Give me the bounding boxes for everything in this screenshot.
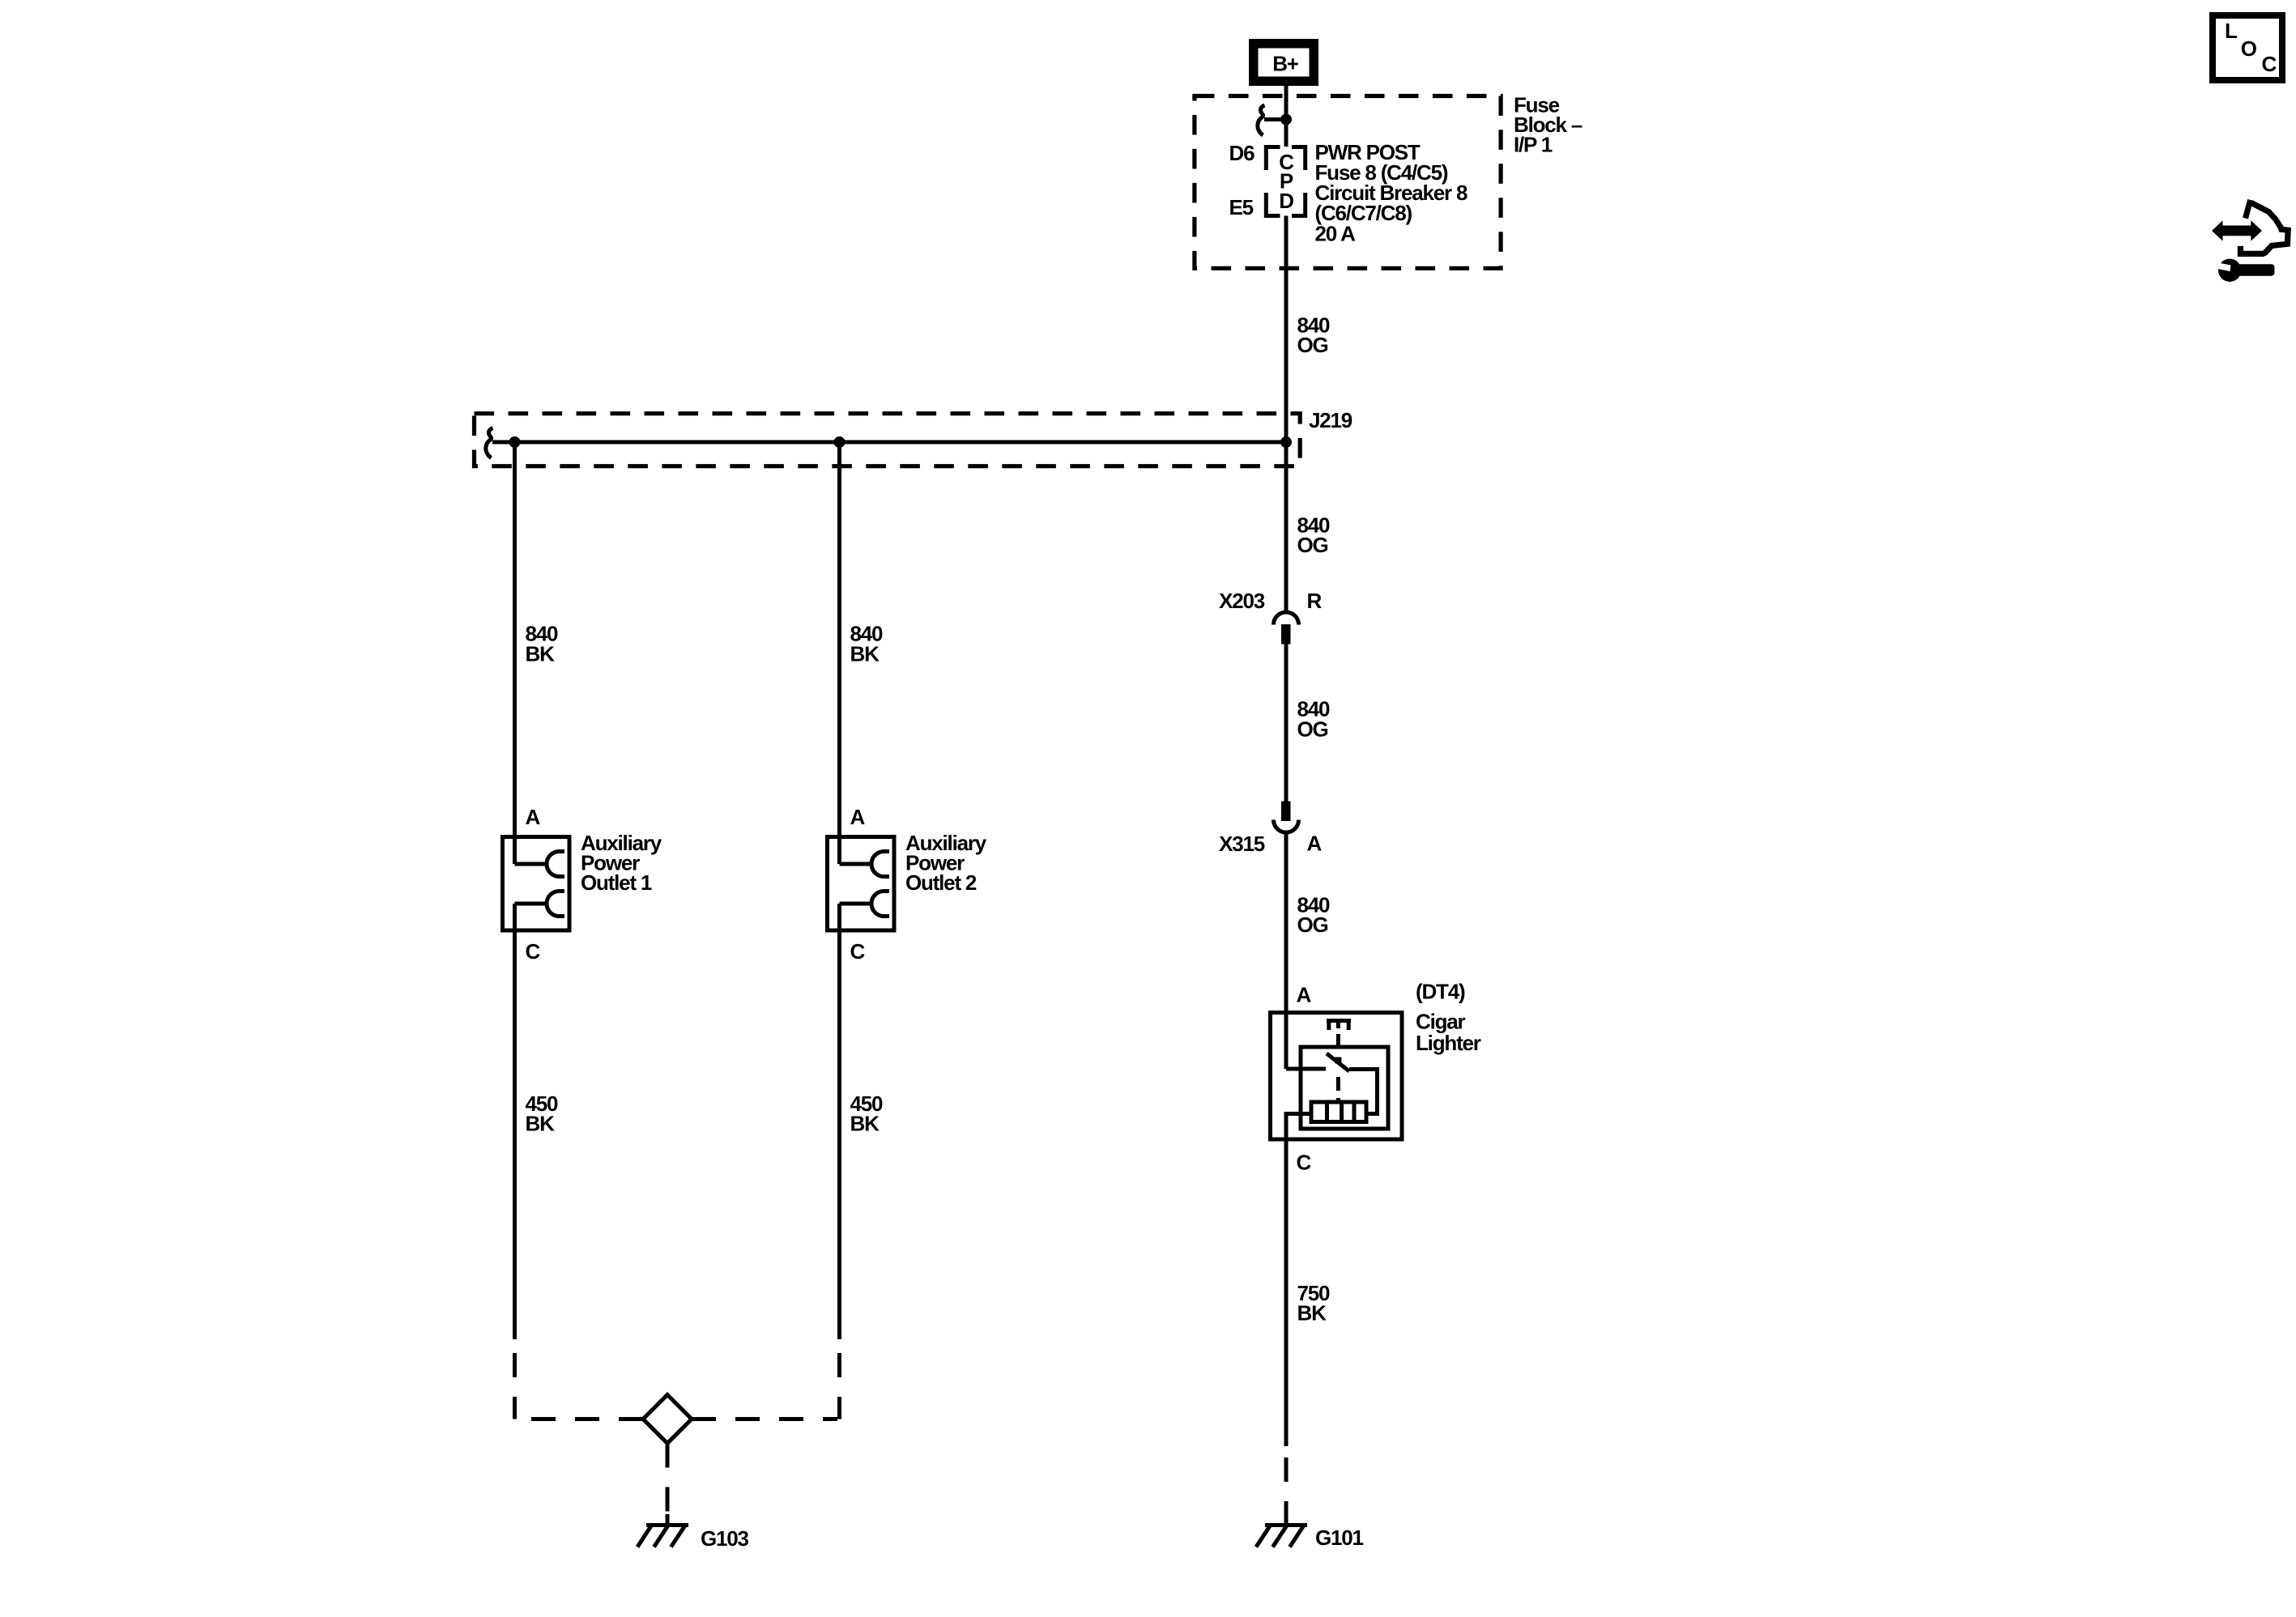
- wire outlet 1 pin C down: [513, 904, 517, 1339]
- label 840 OG (X203-X315): [1297, 697, 1331, 742]
- svg-text:C: C: [2262, 52, 2277, 76]
- switch output to element: [1349, 1070, 1378, 1114]
- wire dashed to splice (branch 2): [837, 1339, 841, 1419]
- bus clip curl symbol: [1258, 105, 1265, 135]
- svg-text:B+: B+: [1272, 52, 1299, 76]
- svg-text:(DT4): (DT4): [1416, 980, 1465, 1004]
- label 450 BK (branch 2): [850, 1091, 884, 1136]
- LOC page icon: [2213, 15, 2282, 80]
- connector X203: [1274, 612, 1299, 645]
- svg-text:O: O: [2241, 36, 2257, 61]
- label 840 OG (below X315): [1297, 893, 1331, 937]
- label Auxiliary Power Outlet 1: [581, 831, 662, 895]
- svg-text:OG: OG: [1297, 913, 1328, 937]
- fuse / circuit breaker CPD symbol: [1266, 147, 1305, 216]
- wire X315 to cigar lighter: [1284, 832, 1289, 1069]
- auxiliary power outlet 2: [828, 837, 895, 931]
- fuse block dashed box: [1195, 96, 1501, 269]
- splice diamond: [643, 1395, 692, 1444]
- cigar lighter component: [1271, 1013, 1403, 1140]
- svg-text:BK: BK: [1297, 1301, 1327, 1326]
- node: bus tap junction dot: [1280, 114, 1292, 126]
- svg-text:D: D: [1279, 189, 1293, 213]
- node junction dot branch 1: [509, 436, 521, 448]
- wire bus J219: [492, 440, 1286, 445]
- wire X203 to X315: [1284, 645, 1289, 802]
- wire dashed to G101: [1284, 1446, 1289, 1521]
- actuator dashed link: [1336, 1034, 1340, 1045]
- wire branch 2 down to outlet 2: [837, 442, 841, 864]
- bus clip curl symbol left of bus: [486, 428, 493, 458]
- label 750 BK: [1297, 1281, 1331, 1326]
- connector X315: [1274, 802, 1299, 833]
- svg-text:I/P 1: I/P 1: [1514, 133, 1553, 157]
- ground G103: [637, 1514, 688, 1547]
- svg-text:C: C: [526, 939, 541, 964]
- label PWR POST fuse text: [1315, 140, 1467, 245]
- svg-text:Cigar: Cigar: [1416, 1010, 1466, 1034]
- svg-text:BK: BK: [850, 641, 880, 666]
- svg-text:OG: OG: [1297, 717, 1328, 741]
- wrench: [2218, 259, 2241, 282]
- label 840 BK: [526, 622, 559, 666]
- battery feed B+ terminal: [1249, 39, 1318, 86]
- heating element: [1311, 1102, 1366, 1122]
- svg-text:Lighter: Lighter: [1416, 1031, 1481, 1055]
- label Fuse Block - I/P 1: [1514, 93, 1582, 157]
- svg-text:R: R: [1307, 589, 1323, 613]
- svg-text:Outlet 1: Outlet 1: [581, 870, 652, 895]
- svg-text:BK: BK: [526, 641, 556, 666]
- wire cigar lighter pin C down: [1284, 1139, 1289, 1446]
- svg-text:BK: BK: [526, 1112, 556, 1136]
- svg-text:E5: E5: [1229, 195, 1254, 219]
- wire trunk J219 to X203: [1284, 442, 1289, 611]
- label 840 OG (below J219): [1297, 513, 1331, 557]
- wire tap to bus clip: [1264, 117, 1286, 121]
- element to pin C: [1286, 1114, 1311, 1140]
- tip electrode: [1327, 1019, 1351, 1023]
- label 840 OG: [1297, 313, 1331, 357]
- label 450 BK: [526, 1091, 559, 1136]
- arrow outline tail: [2246, 200, 2251, 219]
- wire fuse to J219 bus: [1284, 216, 1289, 443]
- svg-text:Outlet 2: Outlet 2: [905, 870, 977, 895]
- switch blade: [1327, 1053, 1349, 1071]
- svg-text:OG: OG: [1297, 533, 1328, 557]
- svg-text:X203: X203: [1219, 589, 1265, 613]
- svg-text:20 A: 20 A: [1315, 221, 1357, 245]
- svg-text:J219: J219: [1309, 408, 1352, 432]
- ground G101: [1256, 1514, 1307, 1547]
- auxiliary power outlet 1: [503, 837, 570, 931]
- svg-text:G101: G101: [1315, 1526, 1364, 1550]
- node junction dot trunk: [1280, 436, 1292, 448]
- wire dashed splice to G103: [666, 1444, 670, 1521]
- svg-text:C: C: [1297, 1151, 1312, 1175]
- wire B+ to fuse: [1284, 86, 1289, 120]
- service navigation icon: [2212, 200, 2288, 282]
- label (DT4) Cigar Lighter: [1416, 980, 1481, 1056]
- label Auxiliary Power Outlet 2: [905, 831, 987, 895]
- svg-text:OG: OG: [1297, 333, 1328, 357]
- svg-text:A: A: [1307, 832, 1323, 856]
- svg-text:G103: G103: [701, 1526, 749, 1551]
- svg-text:D6: D6: [1229, 141, 1255, 165]
- svg-text:A: A: [526, 805, 541, 829]
- svg-text:X315: X315: [1219, 832, 1265, 856]
- wire branch 1 down to outlet 1: [513, 442, 517, 864]
- wire outlet 2 pin C down: [837, 904, 841, 1339]
- switch feed from pin A: [1286, 1067, 1326, 1071]
- wire dashed to splice (branch 1): [513, 1339, 517, 1419]
- label 840 BK (branch 2): [850, 622, 884, 666]
- svg-text:A: A: [850, 805, 866, 829]
- svg-text:C: C: [850, 939, 866, 964]
- svg-text:L: L: [2225, 19, 2238, 43]
- svg-text:BK: BK: [850, 1112, 880, 1136]
- arrow outline body: [2240, 202, 2288, 253]
- double arrow: [2212, 220, 2262, 240]
- node junction dot branch 2: [834, 436, 846, 448]
- splice J219 dashed box: [475, 414, 1301, 466]
- svg-text:A: A: [1297, 982, 1312, 1006]
